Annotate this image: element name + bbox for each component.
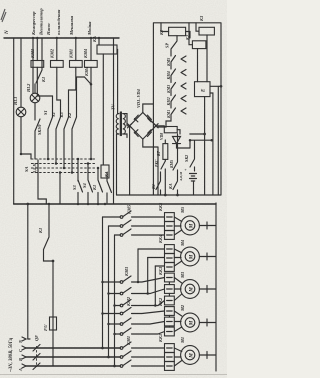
wire HL2 feed [32, 38, 34, 93]
wire motor right rail [215, 203, 217, 371]
feeder phase C [102, 217, 104, 348]
motor M3 [180, 271, 216, 298]
faint page bottom edge [0, 374, 227, 376]
contact KM col [173, 134, 178, 178]
bridge DC leads [143, 104, 154, 113]
coil K2 [185, 23, 206, 82]
diode VD [173, 137, 213, 149]
chain bottom jog to bridge [157, 118, 171, 127]
wire bottom control bus [14, 203, 216, 205]
coil KA column down [102, 54, 104, 165]
motor M1 [180, 337, 216, 365]
contact KA lower right [173, 178, 178, 195]
wire jogs from coils to contact columns [37, 67, 52, 117]
coil K3 [196, 15, 214, 82]
fuse FU [52, 261, 54, 366]
wire SA column to bus [38, 160, 46, 204]
box E amplifier [195, 82, 223, 195]
contact SK2 [190, 141, 195, 171]
coil KM3 [36, 38, 38, 61]
supply arrows [22, 337, 30, 341]
phase buses [26, 347, 120, 349]
thermal heater ticks [167, 216, 173, 218]
lamp HL2 [30, 93, 40, 103]
wire left frame vertical [13, 38, 15, 204]
block borders [153, 23, 221, 195]
feeder phase A [114, 235, 116, 366]
contact KM4 aux + column [90, 67, 92, 159]
coil KM1 [75, 38, 77, 61]
motor M4 [180, 239, 216, 266]
junction row [190, 133, 205, 135]
contact S4 [88, 164, 93, 204]
contact S3 [78, 159, 83, 203]
contact SK1 under HL2 [35, 103, 40, 159]
coil KV right of bridge [156, 126, 180, 140]
contactor KM3 contacts [101, 266, 164, 307]
contact chain KM5..KM1 [166, 52, 186, 119]
contactor KM5 contacts [103, 204, 165, 236]
contact K3 [64, 117, 69, 168]
thermal KK2 [158, 297, 182, 336]
coil KM2 [56, 38, 58, 61]
contact S2 [56, 117, 61, 164]
branch M4 tap corners [137, 249, 165, 307]
contact S1 [48, 117, 53, 159]
thermal KK4 [158, 234, 182, 271]
contactor KM1 contacts on buses [120, 336, 164, 367]
contact SP [171, 36, 177, 52]
battery GB [179, 168, 197, 195]
right border of control block [113, 38, 115, 204]
bridge rectifier VD1-VD4 [128, 88, 159, 139]
motor M2 [180, 304, 216, 332]
contact K2 [72, 117, 77, 173]
wire N riser [27, 204, 29, 339]
contact K1 lower right [156, 172, 161, 195]
contactor KM2 contacts [101, 296, 164, 335]
lamp HL1 branch [20, 38, 22, 107]
coil KM4 [90, 38, 92, 61]
contact KA with boxed label [107, 173, 112, 204]
feeder phase B [108, 226, 110, 357]
coil K1 [159, 23, 190, 38]
contact RKS [161, 161, 165, 195]
scan smudge top-left [1, 9, 6, 22]
contact K1 fuse branch [44, 204, 54, 261]
node N bus [4, 37, 119, 39]
transformer TV [111, 103, 130, 195]
resistor R7 [156, 140, 168, 161]
wire aux column to bus [59, 173, 61, 205]
coil KA top right [98, 38, 100, 45]
thermal KK5 [158, 202, 182, 239]
contact K1 over lamp HL2 [35, 38, 42, 93]
motor M5 [180, 206, 216, 235]
switch SA dashed linkage [31, 158, 96, 160]
thermal KK3 [158, 266, 182, 305]
thermal KK1 [158, 334, 182, 371]
contact K1 lower [98, 168, 103, 203]
